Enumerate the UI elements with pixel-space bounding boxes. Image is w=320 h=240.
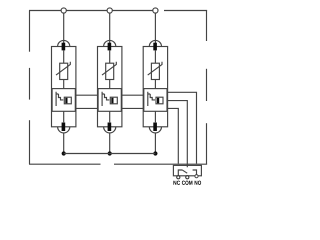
module 1 top plug contact <box>62 43 66 51</box>
monitor chain wire 1-2 upper <box>75 94 98 96</box>
contact lever <box>182 170 187 173</box>
thermal monitor box 1 <box>52 89 75 112</box>
monitor 2 actuator <box>102 92 104 106</box>
enclosure border top mid segment 2 <box>112 10 153 12</box>
enclosure border left dash 1 <box>29 11 31 52</box>
wire module 2 to bottom rail <box>109 133 111 154</box>
contact NC leg <box>178 170 182 176</box>
label NC <box>173 181 180 185</box>
wire varistor RV3 to monitor <box>154 80 156 89</box>
remote contact box <box>173 165 201 175</box>
monitor chain wire 2-3 upper <box>121 94 144 96</box>
contact terminal COM <box>186 176 189 179</box>
module 2 bottom plug socket arc <box>104 127 116 133</box>
terminal 3 (top connection circle) <box>153 8 158 13</box>
varistor RV1 body <box>60 63 68 79</box>
wire COM to contact <box>167 101 187 168</box>
junction node 3 on bottom rail <box>153 151 157 155</box>
wire NO to contact <box>167 92 197 163</box>
monitor 1 indicator frame <box>64 97 71 104</box>
module 1 bottom plug contact <box>62 123 66 132</box>
module 2 top plug socket arc <box>104 40 116 46</box>
monitor chain wire 2-3 lower <box>121 107 144 109</box>
varistor RV2 body <box>106 63 114 79</box>
monitor 3 indicator flag <box>157 98 159 104</box>
wire terminal 2 to plug F2 <box>109 13 111 43</box>
enclosure border right dash 1 <box>206 11 208 42</box>
monitor 2 indicator flag <box>111 98 113 104</box>
enclosure border bottom dash 2 <box>114 163 207 165</box>
enclosure border top-left segment <box>29 10 61 12</box>
module 2 bottom plug contact <box>108 123 112 132</box>
varistor RV3 body <box>151 63 159 79</box>
enclosure border right dash 3 <box>206 123 208 164</box>
wire terminal 3 to plug F3 <box>154 13 156 43</box>
enclosure border left dash 3 <box>29 120 31 164</box>
bottom common rail <box>64 153 156 155</box>
monitor 3 indicator frame <box>156 97 163 104</box>
module 2 housing <box>98 47 122 127</box>
monitor 1 actuator <box>56 92 58 106</box>
monitor 3 contact linkage <box>150 94 155 100</box>
enclosure border top-right dash <box>164 10 207 12</box>
varistor RV3 strike <box>148 62 162 75</box>
monitor 1 contact linkage <box>59 94 64 100</box>
wire module 1 to bottom rail <box>63 133 65 154</box>
wire plug to varistor RV1 <box>63 50 65 63</box>
wire plug to varistor RV3 <box>154 50 156 63</box>
monitor 3 actuator <box>148 92 150 106</box>
wire varistor RV2 to monitor <box>109 80 111 89</box>
module 3 bottom plug contact <box>153 123 157 132</box>
enclosure border left dash 2 <box>29 68 31 100</box>
wire monitor to bottom plug 1 <box>63 111 65 122</box>
module 2 top plug contact <box>108 43 112 51</box>
contact NO leg <box>193 170 197 176</box>
thermal monitor box 2 <box>98 89 121 112</box>
monitor 2 indicator frame <box>110 97 117 104</box>
module 1 housing <box>52 47 76 127</box>
module 1 top plug socket arc <box>58 40 70 46</box>
monitor 1 indicator flag <box>65 98 67 104</box>
enclosure border top mid segment 1 <box>66 10 107 12</box>
wire monitor to bottom plug 2 <box>109 111 111 122</box>
wire monitor to bottom plug 3 <box>154 111 156 122</box>
varistor RV2 strike <box>102 62 116 75</box>
contact terminal NC <box>177 176 180 179</box>
monitor 2 contact linkage <box>105 94 110 100</box>
module 1 bottom plug socket arc <box>58 127 70 133</box>
module 3 top plug socket arc <box>149 40 161 46</box>
thermal monitor box 3 <box>144 89 167 112</box>
wire NC to contact <box>167 108 178 163</box>
enclosure border bottom dash 1 <box>29 163 101 165</box>
module 3 housing <box>143 47 167 127</box>
terminal 1 (top connection circle) <box>61 8 66 13</box>
wire varistor RV1 to monitor <box>63 80 65 89</box>
label NO <box>195 181 201 185</box>
enclosure border right dash 2 <box>206 69 208 101</box>
terminal 2 (top connection circle) <box>107 8 112 13</box>
module 3 bottom plug socket arc <box>149 127 161 133</box>
monitor chain wire 1-2 lower <box>75 107 98 109</box>
wire terminal 1 to plug F1 <box>63 13 65 43</box>
junction node 1 on bottom rail <box>62 151 66 155</box>
wire module 3 to bottom rail <box>154 133 156 154</box>
varistor RV1 strike <box>56 62 70 75</box>
label COM <box>182 181 192 185</box>
contact terminal NO <box>195 175 198 178</box>
junction node 2 on bottom rail <box>108 151 112 155</box>
module 3 top plug contact <box>153 43 157 51</box>
wire plug to varistor RV2 <box>109 50 111 63</box>
